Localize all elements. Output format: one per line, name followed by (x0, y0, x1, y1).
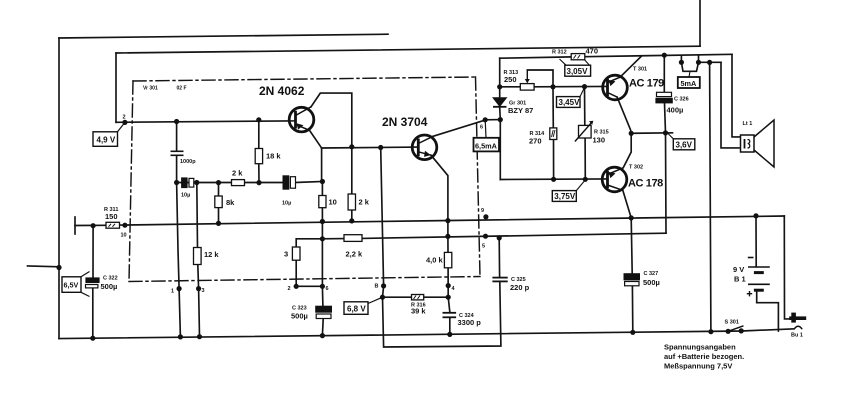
rail M left terminal bar (74, 217, 76, 234)
wire rail N (output feedback line) (322, 238, 344, 240)
wire C326 column (663, 55, 665, 92)
wire output node row (631, 132, 672, 135)
measure box 6,5mA (474, 120, 500, 152)
wire divider 3 ohm hook (296, 239, 322, 247)
wire AC178 collector riser (623, 133, 631, 168)
svg-text:3,6V: 3,6V (676, 141, 693, 150)
resistor 18k (255, 149, 262, 164)
connector Bu1 jack plug (789, 313, 806, 330)
wire diode bottom to AC178 base row (499, 120, 501, 180)
wire AC179 emitter to output node (617, 97, 631, 133)
capacitor C325 220p (492, 278, 507, 282)
svg-text:2: 2 (288, 286, 291, 292)
svg-text:02 F: 02 F (177, 86, 187, 92)
svg-text:9: 9 (481, 208, 484, 214)
svg-text:3,75V: 3,75V (554, 192, 576, 201)
wire output column to rail N (665, 133, 668, 233)
wire R313 wiper link (527, 70, 553, 87)
wire Q2 emitter drop (431, 155, 448, 236)
loudspeaker Lt1 (741, 120, 775, 167)
svg-text:12 k: 12 k (204, 250, 219, 259)
wire 4k column (447, 236, 449, 252)
resistor 4,0k (444, 252, 451, 267)
svg-text:8k: 8k (226, 198, 235, 207)
svg-text:5: 5 (482, 244, 485, 250)
measure box 3,75V (552, 180, 585, 202)
wire R316 row (383, 296, 412, 298)
svg-text:auf +Batterie bezogen.: auf +Batterie bezogen. (664, 352, 744, 361)
wire 10ohm column (321, 182, 323, 196)
wire Q2 collector diagonal (433, 120, 486, 137)
resistor 2,2k (344, 235, 362, 242)
transistor T302 AC178 (602, 167, 627, 192)
svg-text:10: 10 (121, 233, 127, 239)
wire R314 column (552, 87, 554, 128)
wire input stub (28, 265, 60, 268)
wire battery plus lead (757, 291, 779, 332)
svg-text:Lt 1: Lt 1 (743, 121, 753, 127)
supply rail left drop to node 2 (115, 53, 117, 122)
wire diode column (499, 58, 501, 98)
wire rail M (speaker return bus) (75, 224, 106, 226)
wire battery minus column (710, 62, 711, 331)
svg-text:Spannungsangaben: Spannungsangaben (664, 343, 736, 352)
terminal labels (121, 115, 486, 295)
svg-text:220 p: 220 p (510, 283, 530, 292)
resistor 3 (292, 247, 300, 260)
svg-text:250: 250 (504, 75, 517, 84)
wire 8k column (218, 183, 220, 196)
wire rail M drop to jack (784, 216, 789, 319)
measure box 6,8V (344, 297, 383, 314)
wire Q1 collector loop (311, 93, 352, 147)
measure box 3,05V (560, 59, 591, 76)
svg-text:39 k: 39 k (411, 307, 426, 316)
svg-text:500µ: 500µ (291, 312, 308, 321)
svg-text:BZY 87: BZY 87 (508, 106, 533, 115)
svg-text:3,45V: 3,45V (559, 98, 581, 107)
svg-text:R 312: R 312 (552, 50, 567, 56)
capacitor C322 500u (86, 278, 100, 288)
wire Q1 collector to 2k2 resistor (351, 147, 353, 194)
transistor Q1 2N4062 (289, 107, 314, 132)
resistor 1000p label capacitor (171, 151, 184, 155)
capacitor 10u first electrolytic (182, 178, 194, 188)
svg-text:2: 2 (123, 115, 126, 121)
capacitor C326 400u (656, 92, 672, 103)
svg-text:4,0 k: 4,0 k (426, 256, 444, 265)
svg-text:2N 4062: 2N 4062 (259, 84, 305, 98)
svg-text:S 301: S 301 (725, 320, 739, 326)
svg-text:2,2 k: 2,2 k (346, 250, 364, 259)
svg-text:500µ: 500µ (101, 282, 118, 291)
wire C322 column (92, 226, 94, 278)
measure box 4,9V (93, 122, 125, 146)
resistor 2k first (232, 180, 245, 186)
svg-text:AC 179: AC 179 (629, 78, 664, 90)
potentiometer R313 250 (520, 70, 534, 90)
capacitor C323 500u (316, 306, 332, 318)
frame outer box top edge (59, 34, 388, 38)
svg-text:2 k: 2 k (232, 169, 243, 178)
wire main base line node2 to Q1 base (116, 121, 290, 122)
wire terminal B column (381, 148, 384, 298)
svg-text:1: 1 (171, 289, 174, 295)
resistor R311 150 (106, 222, 120, 228)
svg-text:C 327: C 327 (644, 271, 659, 277)
capacitor C324 3300p (443, 313, 457, 318)
svg-text:470: 470 (586, 47, 599, 56)
module Vr301 dash-dot boundary (129, 77, 480, 282)
svg-text:3: 3 (202, 288, 205, 294)
svg-text:Vr 301: Vr 301 (143, 86, 158, 92)
measure box 6,5V (62, 272, 90, 297)
diode Gr301 BZY87 zener (493, 98, 507, 107)
measure box 3,6V (668, 134, 695, 150)
svg-text:130: 130 (593, 136, 606, 145)
svg-text:150: 150 (105, 212, 118, 221)
svg-text:T 301: T 301 (633, 67, 647, 73)
switch S301 (728, 326, 743, 332)
wire AC178 emitter diagonal (623, 190, 631, 218)
svg-text:9 V: 9 V (733, 265, 744, 274)
wire Q1 emitter drop (310, 130, 322, 148)
svg-text:Bu 1: Bu 1 (791, 333, 803, 339)
potentiometer R315 130 (575, 121, 593, 142)
frame outer box left edge (58, 38, 60, 339)
wire y55 corner to speaker upper (732, 54, 741, 137)
capacitor 10u second electrolytic (283, 176, 295, 189)
measure box 5mA (678, 72, 700, 89)
wire speaker lower feed (721, 62, 739, 148)
svg-text:6,5V: 6,5V (64, 281, 79, 290)
svg-text:3: 3 (284, 250, 288, 259)
svg-text:Meßspannung 7,5V: Meßspannung 7,5V (664, 362, 732, 371)
wire R313 row (500, 86, 521, 88)
battery B1 9V (747, 258, 770, 297)
supply top rail (116, 46, 700, 53)
resistor 2k second (348, 194, 355, 210)
capacitor C327 500u (624, 274, 639, 286)
svg-text:2N 3704: 2N 3704 (382, 115, 428, 129)
svg-text:500µ: 500µ (643, 278, 660, 287)
svg-text:5mA: 5mA (681, 79, 698, 88)
wire metering line y55 (500, 57, 571, 58)
svg-text:AC 178: AC 178 (628, 178, 663, 190)
svg-text:400µ: 400µ (667, 106, 684, 115)
svg-text:6: 6 (480, 125, 483, 131)
resistor R314 270 (550, 128, 557, 140)
wire Q2 base line (322, 146, 419, 149)
wire y182 interstage line (177, 182, 283, 184)
svg-text:B 1: B 1 (734, 275, 746, 284)
measure box 3,45V (557, 88, 585, 108)
wire rail N to terminal 6 and C323 (321, 239, 324, 306)
svg-text:10: 10 (329, 198, 337, 207)
svg-text:6,5mA: 6,5mA (475, 142, 498, 151)
wire terminal 2 to 6 (296, 285, 322, 287)
resistor 10 (319, 196, 326, 208)
wire feedback loop bottom (383, 282, 501, 348)
resistor R316 39k (412, 295, 424, 300)
wire 5mA metering jog (680, 56, 682, 63)
svg-text:C 326: C 326 (674, 97, 689, 103)
wire C327 column (631, 218, 632, 274)
wire 1000p column (176, 122, 178, 152)
transistor T301 AC179 (603, 75, 628, 100)
svg-text:18 k: 18 k (266, 152, 281, 161)
svg-text:3,05V: 3,05V (567, 67, 589, 76)
supply rail riser to page top (699, 0, 701, 46)
wire AC179 collector diagonal (620, 56, 642, 77)
wire 18k column (258, 120, 260, 149)
svg-text:2 k: 2 k (359, 198, 370, 207)
svg-text:3300 p: 3300 p (458, 318, 482, 327)
svg-text:C 322: C 322 (103, 276, 118, 282)
svg-text:10µ: 10µ (181, 193, 190, 199)
svg-text:T 302: T 302 (629, 165, 643, 171)
svg-text:B: B (375, 284, 379, 290)
wire R315 column (584, 87, 586, 126)
wire battery top lead (755, 216, 757, 267)
transistor Q2 2N3704 (412, 135, 437, 160)
svg-text:1000p: 1000p (180, 159, 196, 165)
ground bottom rail (59, 329, 794, 339)
svg-text:6,8 V: 6,8 V (347, 305, 366, 314)
svg-text:10µ: 10µ (282, 201, 291, 207)
resistor 12k (194, 248, 202, 265)
wire 12k column (196, 183, 199, 248)
resistor 8k (215, 196, 222, 208)
svg-text:4,9 V: 4,9 V (97, 136, 116, 145)
svg-text:6: 6 (326, 286, 329, 292)
svg-text:270: 270 (529, 137, 542, 146)
resistor R312 470 (571, 54, 585, 60)
